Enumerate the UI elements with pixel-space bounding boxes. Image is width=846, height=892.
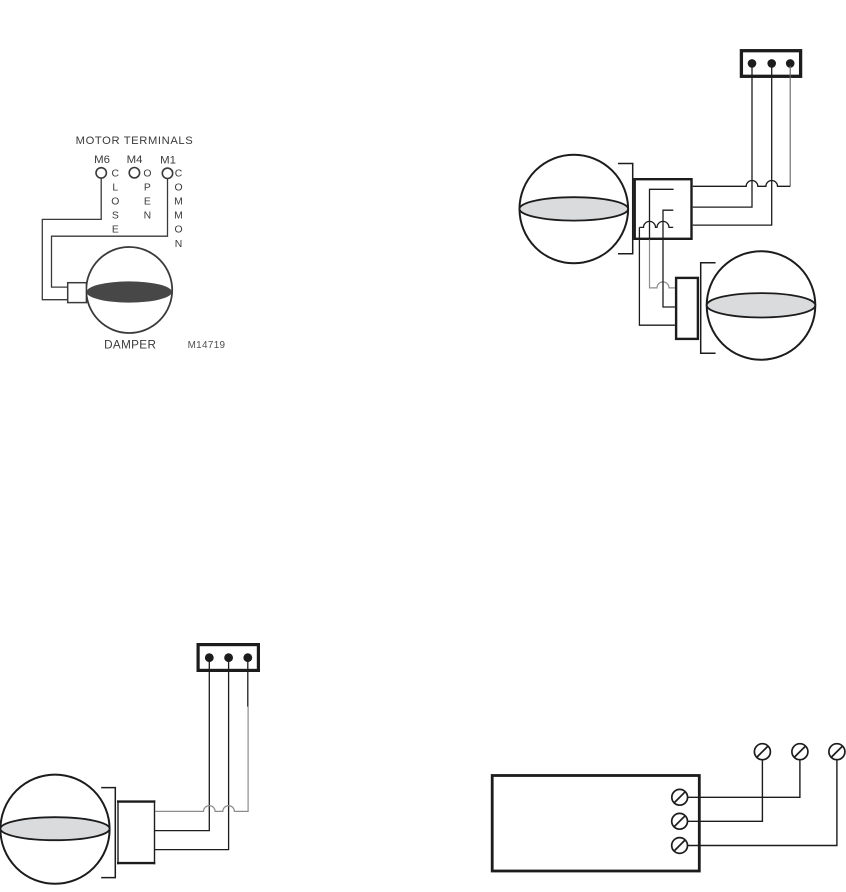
- svg-text:O: O: [111, 197, 119, 208]
- svg-text:N: N: [144, 211, 152, 222]
- svg-text:S: S: [112, 211, 119, 222]
- svg-text:M: M: [174, 197, 183, 208]
- svg-text:L: L: [112, 182, 118, 193]
- svg-text:O: O: [174, 225, 182, 236]
- svg-text:E: E: [144, 197, 151, 208]
- svg-text:M1: M1: [160, 154, 176, 166]
- svg-text:M6: M6: [94, 154, 110, 166]
- svg-text:P: P: [144, 182, 151, 193]
- svg-text:MOTOR TERMINALS: MOTOR TERMINALS: [76, 135, 194, 147]
- svg-text:O: O: [143, 168, 151, 179]
- svg-text:DAMPER: DAMPER: [104, 338, 156, 351]
- svg-text:N: N: [175, 239, 183, 250]
- svg-text:O: O: [174, 182, 182, 193]
- svg-text:M4: M4: [127, 154, 143, 166]
- svg-text:C: C: [112, 168, 120, 179]
- svg-text:E: E: [112, 225, 119, 236]
- svg-text:M14719: M14719: [188, 340, 226, 351]
- svg-text:C: C: [175, 168, 183, 179]
- svg-text:M: M: [174, 211, 183, 222]
